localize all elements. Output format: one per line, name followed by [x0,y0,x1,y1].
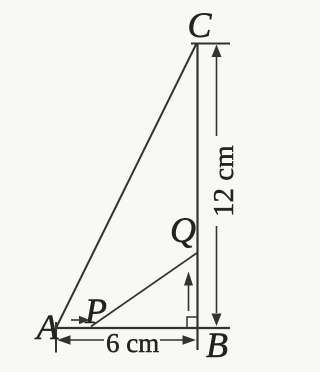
svg-text:C: C [188,5,213,45]
svg-text:Q: Q [170,210,196,250]
svg-text:P: P [84,291,107,331]
svg-text:B: B [206,325,228,365]
svg-text:12 cm: 12 cm [208,145,240,217]
svg-text:A: A [35,307,60,347]
svg-text:6 cm: 6 cm [106,328,159,358]
